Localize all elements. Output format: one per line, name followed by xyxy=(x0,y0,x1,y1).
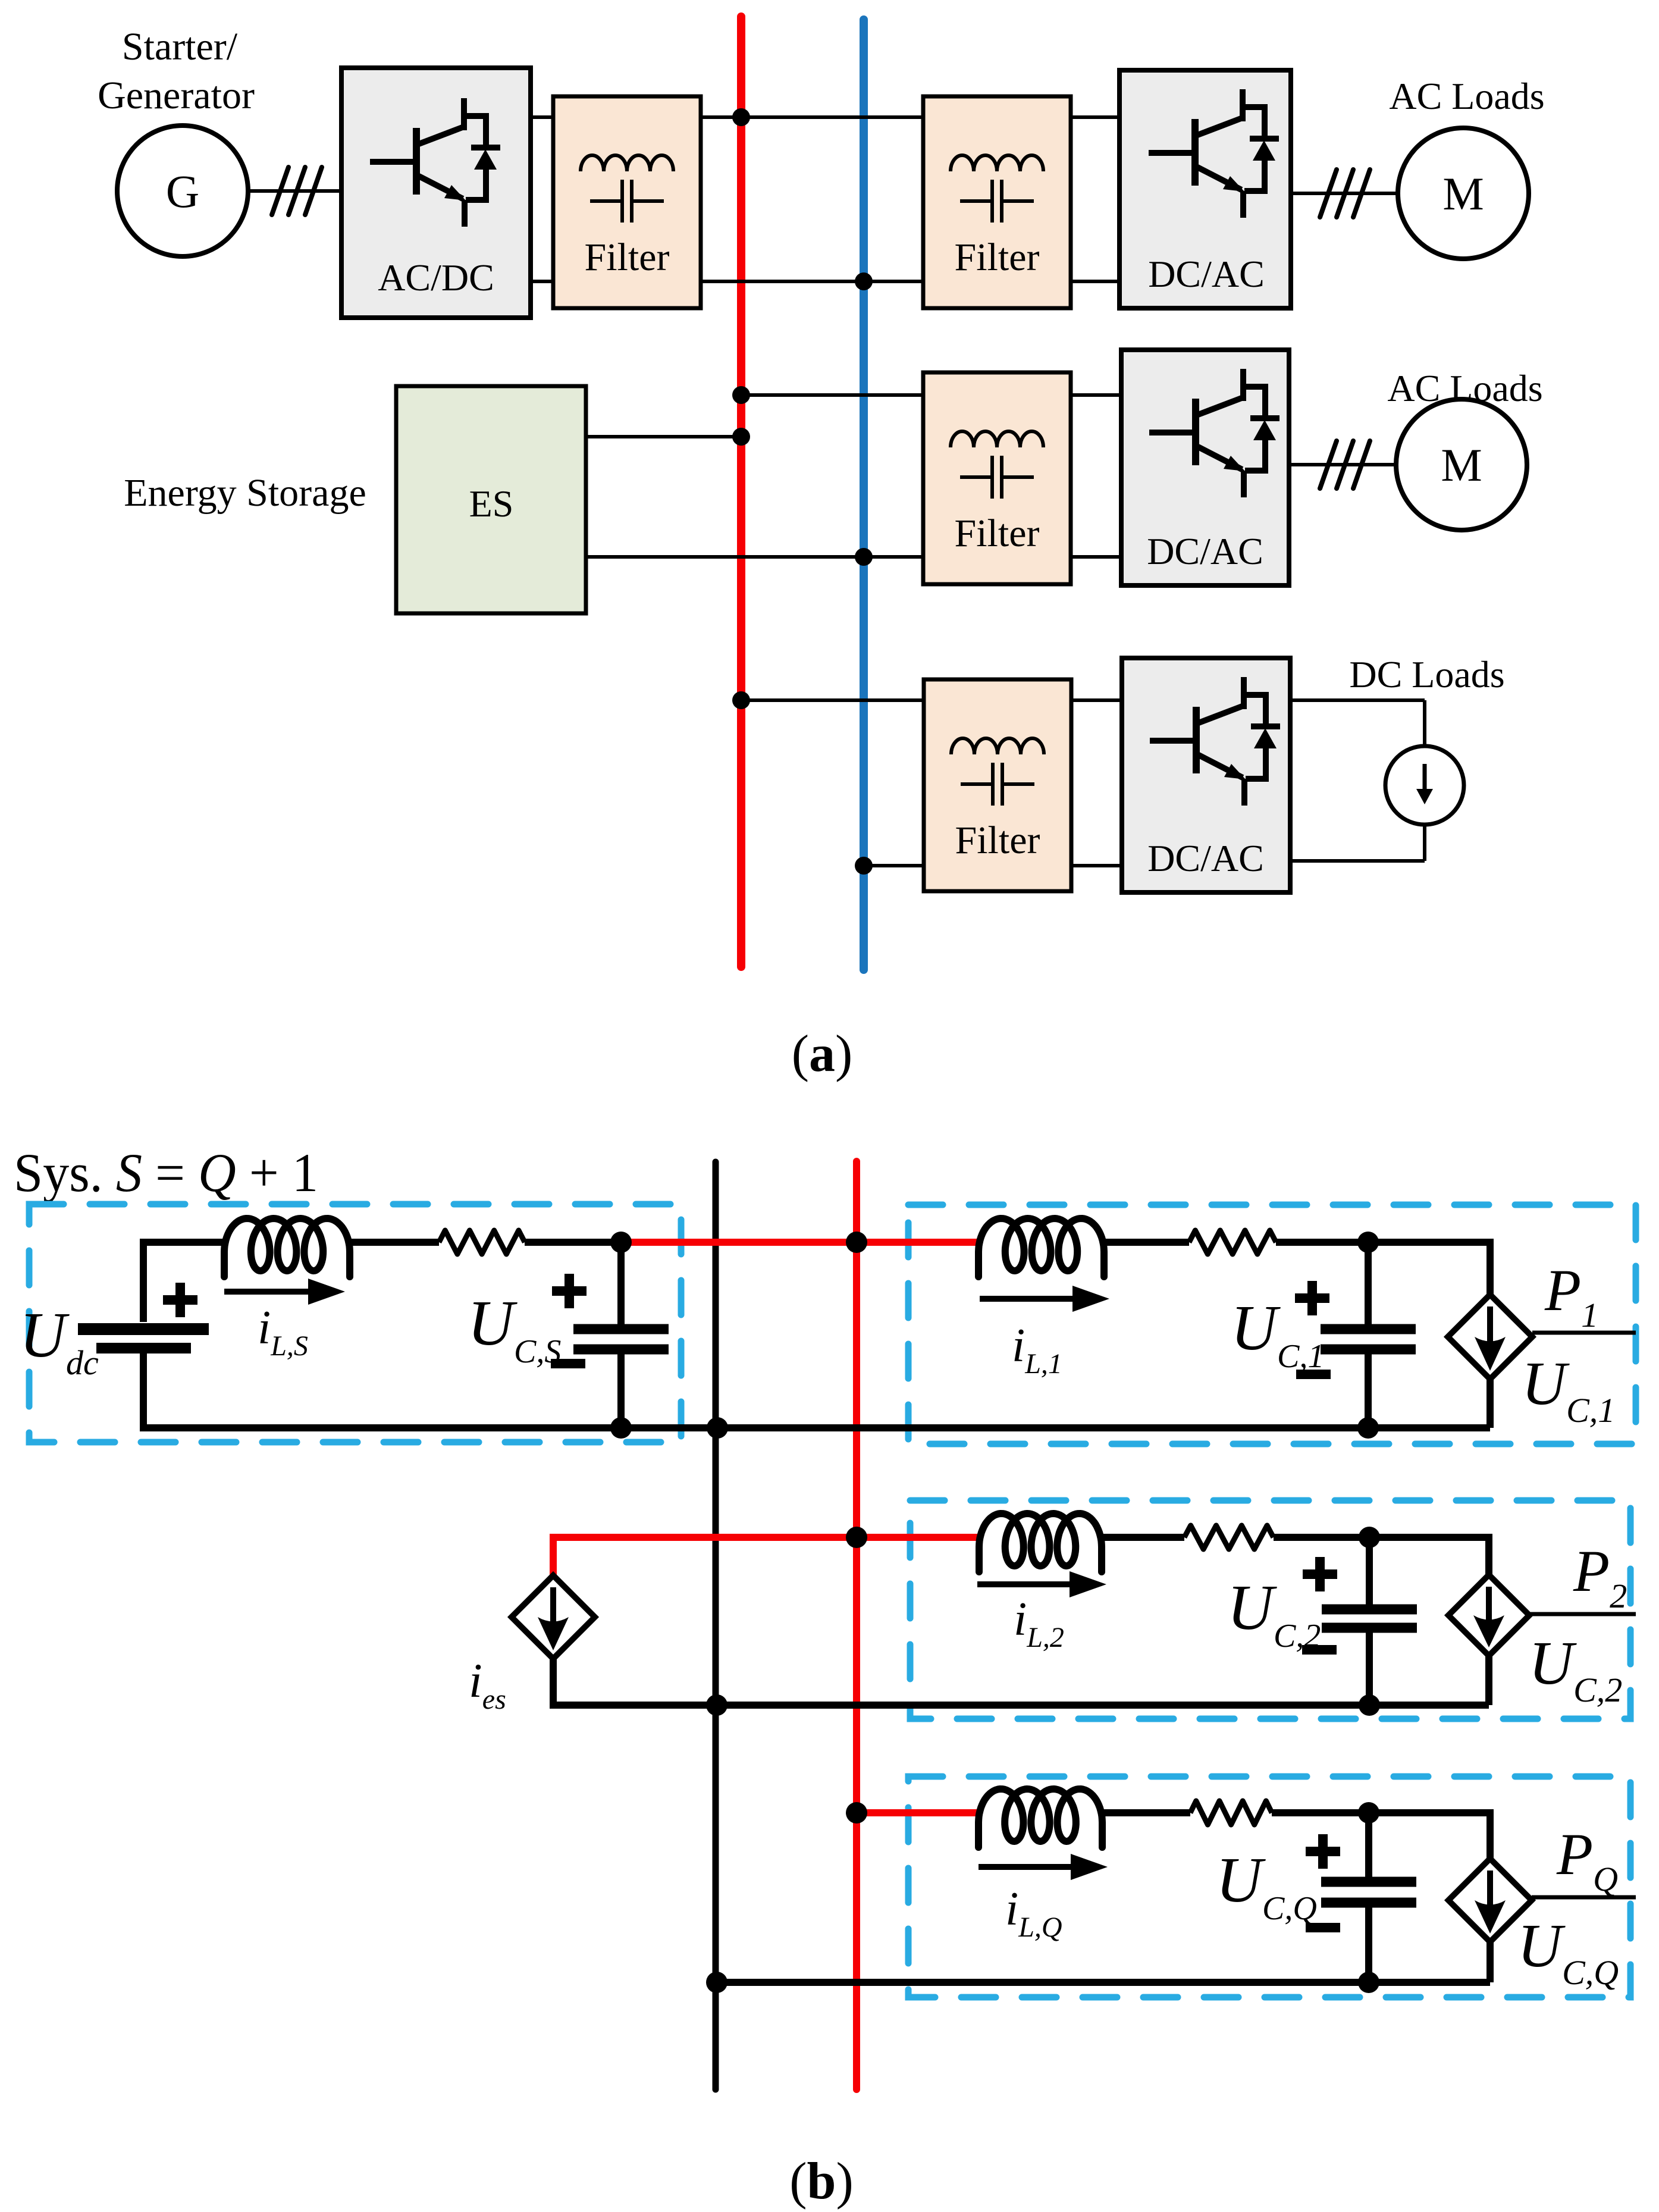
svg-text:DC/AC: DC/AC xyxy=(1148,253,1265,295)
svg-text:AC Loads: AC Loads xyxy=(1387,367,1542,409)
svg-text:AC Loads: AC Loads xyxy=(1389,75,1544,117)
svg-text:ES: ES xyxy=(469,482,514,525)
svg-text:M: M xyxy=(1441,439,1482,491)
svg-text:Starter/: Starter/ xyxy=(122,25,238,68)
svg-text:(a): (a) xyxy=(792,1025,853,1083)
svg-text:(b): (b) xyxy=(789,2153,854,2210)
svg-text:Sys. S = Q + 1: Sys. S = Q + 1 xyxy=(14,1142,318,1203)
svg-text:G: G xyxy=(166,165,199,217)
svg-text:AC/DC: AC/DC xyxy=(378,256,494,299)
svg-text:Filter: Filter xyxy=(955,236,1040,279)
svg-text:Generator: Generator xyxy=(98,74,255,117)
svg-text:Filter: Filter xyxy=(955,512,1040,555)
svg-text:Energy Storage: Energy Storage xyxy=(124,471,366,515)
svg-text:DC Loads: DC Loads xyxy=(1349,653,1504,695)
svg-text:Filter: Filter xyxy=(955,819,1040,862)
svg-text:Filter: Filter xyxy=(585,236,670,279)
svg-text:M: M xyxy=(1442,168,1484,220)
svg-text:DC/AC: DC/AC xyxy=(1147,837,1264,879)
svg-text:DC/AC: DC/AC xyxy=(1147,530,1263,572)
